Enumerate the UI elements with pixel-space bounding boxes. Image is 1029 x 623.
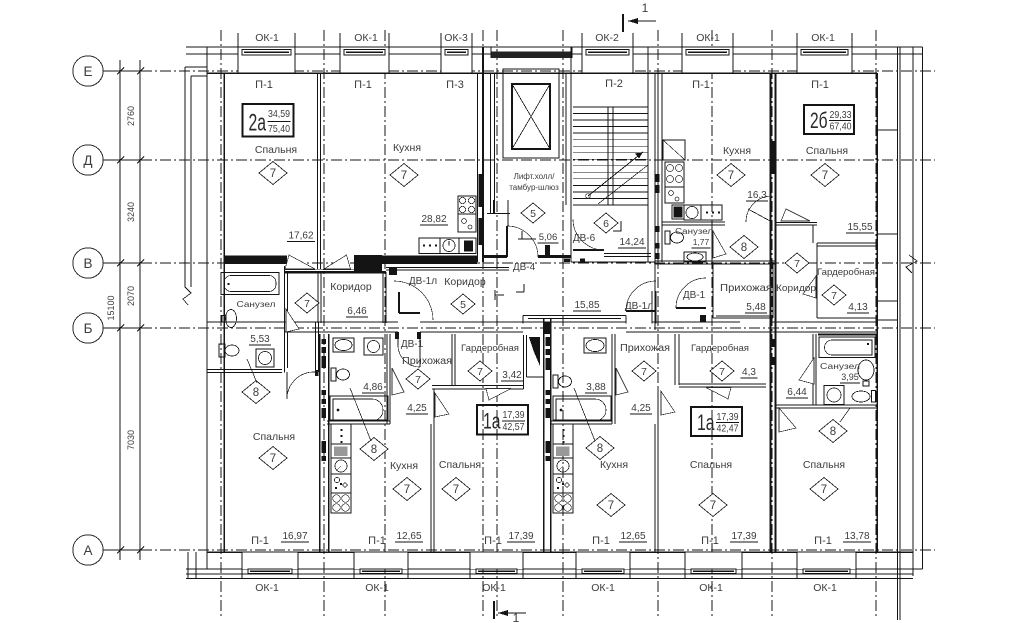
vestibule bottom wall with door DV-6	[604, 253, 651, 255]
svg-text:5,48: 5,48	[746, 302, 766, 313]
diamond lift hall	[521, 203, 545, 223]
vertical axis line x=497	[496, 30, 498, 618]
door leaf bedroom 2a	[285, 255, 315, 269]
svg-text:Прихожая: Прихожая	[620, 343, 670, 354]
svg-text:16,3: 16,3	[747, 190, 767, 201]
vertical axis line x=563	[562, 30, 564, 618]
apartment box 2b	[804, 105, 854, 134]
right facade lines	[912, 47, 914, 576]
axis line V horizontal	[103, 262, 935, 264]
apartment box 2a	[243, 104, 294, 137]
axis circle Е	[73, 56, 103, 86]
svg-text:1а: 1а	[697, 410, 715, 435]
diamond sanuzel 2a	[242, 381, 270, 404]
svg-text:Кухня: Кухня	[600, 459, 628, 471]
washer 2a	[256, 349, 274, 367]
svg-text:7: 7	[415, 374, 421, 386]
svg-text:1: 1	[642, 1, 649, 15]
svg-text:15100: 15100	[106, 295, 116, 320]
svg-text:7: 7	[404, 484, 410, 496]
kitchen 2a stove	[458, 196, 476, 214]
stair stringer	[607, 107, 609, 205]
svg-text:Коридор: Коридор	[330, 281, 372, 293]
elevator shaft outer	[503, 69, 559, 158]
svg-text:28,82: 28,82	[421, 214, 446, 225]
svg-text:Санузел: Санузел	[237, 299, 276, 309]
svg-text:3240: 3240	[126, 202, 136, 222]
door to apartment 1a left	[397, 332, 399, 345]
svg-text:3,95: 3,95	[841, 372, 859, 382]
svg-text:ОК-1: ОК-1	[813, 582, 837, 594]
kitchen 2a sink unit	[458, 214, 476, 232]
stair window dark band	[491, 52, 572, 59]
wall pier between doors	[354, 255, 382, 274]
svg-text:ДВ-1л: ДВ-1л	[625, 301, 653, 312]
left exterior wall	[206, 47, 208, 569]
wardrobe 1a-right bottom wall	[679, 383, 766, 385]
wall on axis V kitchen 2a bottom	[382, 256, 478, 265]
axis line D horizontal	[103, 159, 935, 161]
prihozhaya/wardrobe divider 1a-left	[451, 334, 453, 386]
corridor 6.44 / sanuzel divider	[812, 334, 814, 405]
dimension tick	[112, 549, 148, 551]
svg-text:ОК-1: ОК-1	[699, 582, 723, 594]
stair flight treads	[573, 106, 648, 108]
svg-text:5,06: 5,06	[539, 232, 558, 243]
svg-text:ОК-1: ОК-1	[811, 32, 835, 44]
svg-text:П-1: П-1	[592, 535, 610, 547]
corridor 2b door leaf	[803, 276, 816, 298]
diamond wardrobe 1a-right	[710, 361, 734, 381]
svg-text:П-3: П-3	[446, 79, 464, 91]
corridor piece walls 2a	[315, 322, 317, 372]
stair left wall	[565, 73, 567, 205]
door DV-1 to apartment 2b	[676, 307, 706, 309]
sink 2a	[222, 316, 226, 323]
wardrobe 1a-right door	[706, 388, 731, 400]
svg-text:2б: 2б	[810, 108, 828, 133]
svg-text:П-1: П-1	[251, 535, 269, 547]
svg-text:ДВ-4: ДВ-4	[513, 262, 536, 273]
sanuzel 1.77 box	[662, 224, 725, 226]
corridor 6.46 walls	[317, 272, 319, 323]
sink 2b-bottom	[858, 360, 874, 380]
toilet 1.77	[665, 231, 670, 244]
svg-text:Е: Е	[83, 64, 92, 79]
sanuzel 2b door	[799, 358, 814, 384]
section mark 1 bottom	[493, 601, 495, 619]
svg-text:П-1: П-1	[814, 535, 832, 547]
wall nibs right of vestibule	[656, 174, 660, 182]
bathtub 1a-right	[553, 396, 611, 420]
corridor-5 north wall	[386, 267, 483, 269]
svg-text:8: 8	[371, 444, 377, 456]
svg-text:Гардеробная: Гардеробная	[691, 343, 749, 354]
svg-text:П-1: П-1	[484, 535, 502, 547]
svg-text:Прихожая: Прихожая	[720, 282, 772, 294]
svg-text:17,39: 17,39	[508, 531, 533, 542]
svg-text:ДВ-6: ДВ-6	[573, 233, 596, 244]
svg-text:тамбур-шлюз: тамбур-шлюз	[509, 183, 559, 192]
diamond kitchen 2a	[390, 164, 418, 187]
toilet 2a	[219, 344, 225, 357]
window ОК-1 bottom bay x=470	[470, 552, 523, 569]
svg-text:5,53: 5,53	[250, 334, 270, 345]
svg-text:1,77: 1,77	[693, 237, 710, 247]
sanuzel 2b-bottom box	[776, 404, 877, 406]
svg-text:12,65: 12,65	[396, 531, 421, 542]
right facade break	[906, 255, 917, 273]
diamond prihozhaya 1a-right	[632, 361, 656, 381]
svg-text:П-1: П-1	[811, 79, 829, 91]
svg-text:3,88: 3,88	[586, 382, 606, 393]
svg-text:67,40: 67,40	[830, 121, 852, 133]
diamond sanuzel 2b	[730, 236, 758, 259]
corridor 6.46 north thick wall	[285, 271, 387, 273]
svg-text:Санузел: Санузел	[820, 361, 860, 371]
svg-text:ДВ-1л: ДВ-1л	[409, 276, 437, 287]
right exterior wall outer pair	[897, 47, 899, 620]
svg-text:8: 8	[830, 426, 836, 438]
svg-text:8: 8	[253, 387, 259, 399]
wall on axis V left part (bedroom 2a bottom)	[224, 256, 287, 265]
wardrobe 1a-left door	[486, 389, 511, 401]
svg-text:29,33: 29,33	[830, 109, 852, 121]
apartment divider wall center (1a / 1a)	[543, 318, 545, 552]
svg-text:П-1: П-1	[701, 535, 719, 547]
svg-text:8: 8	[597, 443, 603, 455]
window ОК-1 top bay x=797	[797, 48, 852, 73]
diamond sanuzel 1a-right	[586, 437, 614, 460]
svg-text:7: 7	[719, 366, 725, 378]
kitchen P-1 door	[746, 196, 772, 222]
wardrobe 1a-left bottom wall	[432, 385, 524, 387]
svg-text:ДВ-1: ДВ-1	[401, 339, 424, 350]
bathroom 1a-right door	[616, 368, 628, 395]
bathroom 1a-left box	[386, 334, 388, 424]
window ОК-1 top bay x=340	[340, 48, 389, 73]
svg-text:В: В	[83, 256, 92, 271]
diamond vestibule	[594, 213, 618, 233]
sink 1.77	[684, 252, 706, 262]
svg-text:17,39: 17,39	[717, 411, 739, 423]
wall kitchen P-1 left	[657, 73, 659, 262]
axis circle Д	[73, 145, 103, 175]
svg-text:2070: 2070	[126, 286, 136, 306]
svg-text:ОК-1: ОК-1	[354, 32, 378, 44]
kitchen column x=553	[553, 424, 573, 444]
svg-text:Б: Б	[84, 321, 93, 336]
svg-text:Коридор: Коридор	[776, 283, 816, 293]
svg-text:34,59: 34,59	[268, 108, 290, 120]
svg-text:7: 7	[831, 290, 837, 302]
prihozhaya/wardrobe divider 1a-right	[674, 334, 676, 385]
corridor south wall on axis B	[207, 321, 398, 323]
svg-text:7: 7	[728, 170, 734, 182]
corner marks in corridor	[494, 290, 496, 300]
vertical axis line x=221	[220, 30, 222, 618]
kitchen 2b stove	[665, 162, 684, 187]
sanuzel 1.77 door leaf	[713, 231, 726, 258]
sanuzel 2a walls	[284, 266, 286, 373]
svg-text:3,42: 3,42	[502, 370, 522, 381]
svg-text:7: 7	[608, 500, 614, 512]
svg-text:Спальня: Спальня	[439, 459, 481, 471]
bedroom 1a-right door	[661, 391, 675, 415]
wardrobe 1a-left right wall and vent niche	[523, 335, 525, 389]
svg-text:Спальня: Спальня	[253, 431, 295, 443]
svg-text:ОК-1: ОК-1	[255, 582, 279, 594]
toilet 1a-left	[331, 368, 336, 381]
kitchen 2b sink unit	[665, 187, 684, 203]
svg-text:П-1: П-1	[354, 79, 372, 91]
window ОК-1 bottom bay x=797	[797, 552, 856, 569]
svg-text:6: 6	[603, 218, 609, 230]
svg-text:7: 7	[453, 484, 459, 496]
prihozhaya 2b box	[712, 262, 714, 318]
door threshold line	[285, 269, 355, 271]
svg-text:7: 7	[641, 366, 647, 378]
svg-text:7030: 7030	[126, 430, 136, 450]
sink oval 1a-left	[333, 338, 354, 352]
wall between kitchen P-1 and bedroom 2b	[770, 73, 772, 552]
svg-text:7: 7	[710, 500, 716, 512]
vertical axis line x=712	[711, 30, 713, 618]
diamond wardrobe 2b	[822, 285, 846, 305]
svg-text:1а: 1а	[483, 409, 501, 434]
svg-text:П-2: П-2	[605, 78, 623, 90]
diamond bedroom 1a-right	[699, 494, 727, 517]
vertical axis line x=876	[875, 30, 877, 618]
bedroom 16.97 door	[286, 372, 288, 399]
kitchen 2b counter	[672, 205, 684, 219]
kitchen column x=331	[331, 424, 351, 444]
window ОК-1 bottom bay x=685	[685, 552, 742, 569]
diamond wardrobe 1a-left	[468, 361, 492, 381]
svg-text:Кухня: Кухня	[390, 460, 418, 472]
dimension line outer	[119, 60, 121, 560]
svg-text:15,55: 15,55	[847, 222, 872, 233]
svg-text:Санузел: Санузел	[675, 227, 713, 236]
svg-text:42,47: 42,47	[717, 423, 739, 435]
svg-text:12,65: 12,65	[620, 531, 645, 542]
svg-text:Коридор: Коридор	[444, 276, 486, 288]
svg-text:1: 1	[513, 611, 520, 623]
wall bedroom 16.97 top right piece	[314, 371, 319, 373]
bathtub 2a	[221, 273, 279, 295]
vertical axis line x=483	[482, 30, 484, 618]
svg-text:4,3: 4,3	[742, 367, 756, 378]
svg-text:4,13: 4,13	[848, 302, 868, 313]
svg-text:8: 8	[741, 242, 747, 254]
window ОК-1 bottom bay x=242	[242, 552, 298, 569]
axis line B horizontal	[103, 327, 935, 329]
svg-text:7: 7	[270, 453, 276, 465]
svg-text:П-1: П-1	[255, 79, 273, 91]
svg-text:13,78: 13,78	[844, 531, 869, 542]
svg-text:2760: 2760	[126, 106, 136, 126]
toilet 1a-right	[553, 375, 558, 388]
svg-text:Спальня: Спальня	[806, 145, 848, 157]
apartment box 1a-left	[477, 405, 528, 435]
sanuzel 2a door	[286, 309, 299, 332]
vertical axis line x=385	[384, 30, 386, 618]
diamond bedroom 2b	[811, 164, 839, 187]
svg-text:ОК-1: ОК-1	[365, 582, 389, 594]
kitchen/bedroom divider 1a-left	[430, 424, 432, 552]
axis line E horizontal	[103, 70, 935, 72]
diamond kitchen 2b	[717, 164, 745, 187]
diamond kitchen 1a-left	[393, 478, 421, 501]
section mark 1 top	[622, 14, 624, 32]
left facade lines	[184, 67, 186, 287]
svg-text:2а: 2а	[249, 110, 267, 137]
sink square 1a-left	[364, 338, 383, 355]
window ОК-1 top bay x=682	[682, 48, 733, 73]
svg-text:4,86: 4,86	[363, 382, 383, 393]
svg-text:16,97: 16,97	[282, 531, 307, 542]
svg-text:ОК-1: ОК-1	[591, 582, 615, 594]
svg-text:П-1: П-1	[368, 535, 386, 547]
svg-text:ДВ-1: ДВ-1	[683, 290, 706, 301]
svg-text:ОК-1: ОК-1	[482, 582, 506, 594]
stair right wall	[647, 47, 649, 262]
svg-text:7: 7	[477, 366, 483, 378]
svg-text:ОК-2: ОК-2	[595, 32, 619, 44]
bathtub 1a-left	[330, 396, 388, 420]
sink oval 1a-right	[584, 338, 606, 353]
corridor 2b walls	[776, 222, 817, 224]
svg-text:Д: Д	[83, 153, 92, 168]
svg-text:Спальня: Спальня	[255, 144, 297, 156]
entry door 2a DV-1l	[398, 292, 400, 313]
dimension tick	[112, 159, 148, 161]
diamond sanuzel 1a-left	[360, 438, 388, 461]
svg-text:Спальня: Спальня	[690, 459, 732, 471]
toilet 2b-bottom	[852, 391, 870, 402]
svg-text:ОК-1: ОК-1	[696, 32, 720, 44]
wall kitchen 2a right / elevator lobby left	[477, 73, 479, 262]
door leaf corridor 2a	[324, 255, 351, 269]
lobby north wall segment	[483, 267, 509, 269]
diamond corridor 2b	[785, 253, 809, 273]
window ОК-1 bottom bay x=354	[354, 552, 408, 569]
diamond sanuzel 2b-bottom	[819, 420, 847, 443]
window ОК-1 top bay x=238	[238, 48, 295, 73]
svg-text:4,25: 4,25	[631, 403, 651, 414]
diamond bedroom 2a bottom	[259, 447, 287, 470]
apartment divider wall left (2a / 1a)	[319, 334, 321, 552]
vertical axis line x=658	[657, 30, 659, 618]
diamond prihozhaya 1a-left	[406, 369, 430, 389]
svg-text:П-1: П-1	[692, 79, 710, 91]
bedroom 2b-bottom door	[779, 408, 796, 432]
axis line A horizontal	[103, 549, 935, 551]
elevator lobby walls	[483, 255, 507, 258]
wall between bedroom 2a and kitchen 2a	[317, 73, 319, 269]
svg-text:Кухня: Кухня	[723, 145, 751, 157]
lobby door DV-4	[506, 226, 508, 257]
svg-text:17,62: 17,62	[288, 231, 313, 242]
svg-text:15,85: 15,85	[574, 300, 599, 311]
bathtub 2b-bottom	[819, 337, 875, 358]
washer 2b-bottom	[824, 386, 844, 405]
svg-text:6,44: 6,44	[787, 387, 807, 398]
elevator car	[512, 84, 550, 149]
svg-text:7: 7	[401, 170, 407, 182]
door to apartment 1a right DV-1l	[626, 310, 656, 312]
svg-text:Кухня: Кухня	[393, 142, 421, 154]
dimension tick	[112, 262, 148, 264]
window ОК-3 top bay x=441	[441, 48, 472, 73]
svg-text:Спальня: Спальня	[803, 459, 845, 471]
kitchen 2a counter	[419, 238, 440, 254]
svg-text:7: 7	[822, 170, 828, 182]
vestibule door DV-6	[573, 249, 604, 251]
svg-text:А: А	[83, 543, 92, 558]
window ОК-2 top bay x=582	[582, 48, 633, 73]
stair arrow	[586, 194, 591, 199]
vertical axis line x=324	[323, 30, 325, 618]
axis circle В	[73, 248, 103, 278]
dimension line inner	[139, 60, 141, 560]
diamond corridor-5	[451, 294, 475, 314]
bottom-left corner detail	[187, 552, 189, 579]
dimension tick	[112, 327, 148, 329]
svg-text:6,46: 6,46	[347, 306, 367, 317]
svg-text:Лифт.холл/: Лифт.холл/	[514, 172, 556, 181]
svg-text:7: 7	[821, 484, 827, 496]
svg-text:5: 5	[530, 208, 536, 220]
lobby partition	[487, 213, 510, 215]
diamond corridor piece 2a	[295, 293, 319, 313]
elevator lobby west wall pair	[490, 73, 492, 214]
bathroom 1a-left door	[392, 368, 404, 395]
diamond bedroom 2b-bottom	[810, 478, 838, 501]
kitchen 2b cabinet	[663, 140, 685, 160]
svg-text:17,39: 17,39	[731, 531, 756, 542]
svg-text:75,40: 75,40	[268, 123, 290, 135]
svg-text:Гардеробная: Гардеробная	[817, 267, 875, 278]
diamond bedroom 1a-left	[442, 478, 470, 501]
diamond bedroom 2a	[259, 162, 287, 185]
diamond kitchen 1a-right	[597, 494, 625, 517]
bedroom 1a-left door	[435, 393, 449, 417]
vertical axis line x=772	[771, 30, 773, 618]
bottom exterior wall	[207, 551, 913, 553]
corridor niche	[523, 315, 626, 317]
svg-text:ОК-1: ОК-1	[255, 32, 279, 44]
axis circle Б	[73, 313, 103, 343]
svg-text:4,25: 4,25	[407, 403, 427, 414]
right exterior wall inner face	[876, 73, 878, 552]
wardrobe 2b box	[817, 242, 877, 244]
bedroom 2b door leaves	[781, 209, 810, 221]
bathroom 1a-right box	[611, 334, 613, 424]
svg-text:Прихожая: Прихожая	[402, 356, 452, 367]
svg-text:Гардеробная: Гардеробная	[461, 343, 519, 354]
svg-text:7: 7	[270, 168, 276, 180]
right wall joints	[877, 129, 898, 131]
svg-text:42,57: 42,57	[503, 421, 525, 433]
apartment box 1a-right	[691, 407, 742, 436]
svg-text:7: 7	[304, 298, 310, 310]
kitchen/bedroom divider 1a-right	[654, 424, 656, 552]
svg-text:17,39: 17,39	[503, 409, 525, 421]
axis circle А	[73, 535, 103, 565]
svg-text:5: 5	[460, 299, 466, 311]
svg-text:14,24: 14,24	[619, 237, 644, 248]
